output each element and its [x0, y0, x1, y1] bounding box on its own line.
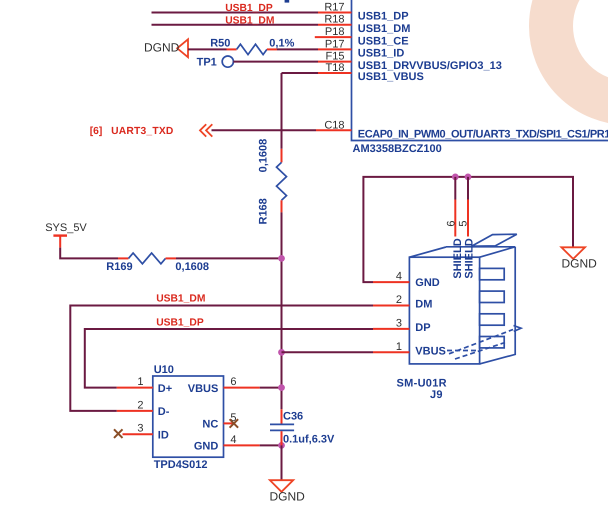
wire SYS_5V down and right: [60, 248, 118, 259]
svg-text:SHIELD: SHIELD: [464, 238, 476, 278]
pin number 2 J9: [396, 294, 402, 306]
watermark logo arc: [551, 0, 608, 103]
wire main vertical VBUS net middle: [281, 212, 283, 409]
svg-text:VBUS: VBUS: [415, 345, 446, 357]
svg-text:SM-U01R: SM-U01R: [397, 377, 447, 389]
svg-text:DGND: DGND: [562, 257, 598, 271]
svg-text:0.1uf,6.3V: 0.1uf,6.3V: [283, 433, 335, 445]
net label USB1_DP middle: [156, 317, 204, 328]
svg-text:U10: U10: [154, 364, 174, 376]
IC U10 value TPD4S012: [154, 459, 208, 471]
off-page connector UART3_TXD: [200, 124, 212, 136]
pin name D+: [158, 383, 172, 395]
svg-text:DGND: DGND: [144, 40, 180, 54]
resistor R50 value 0,1%: [269, 37, 294, 49]
wire C36 to DGND: [281, 445, 283, 480]
resistor R169: [118, 253, 176, 264]
svg-text:TPD4S012: TPD4S012: [154, 459, 208, 471]
wire USB1_DM middle: [70, 306, 373, 411]
IC U10 body: [153, 376, 224, 457]
pin label T18: [326, 62, 345, 74]
pin 1 VBUS J9 stub: [373, 351, 409, 353]
wire DGND to R50: [188, 48, 227, 50]
svg-text:D+: D+: [158, 383, 172, 395]
svg-text:2: 2: [396, 294, 402, 306]
svg-text:C18: C18: [324, 119, 344, 131]
wire net USB1_DM top: [152, 24, 319, 26]
connector J9 contact pad 2: [480, 291, 505, 302]
pin 2 D- stub: [117, 410, 153, 412]
pin label R18: [324, 14, 344, 26]
test point TP1 label: [197, 56, 217, 68]
svg-text:SHIELD: SHIELD: [452, 238, 464, 278]
svg-text:3: 3: [137, 423, 143, 435]
power label SYS_5V: [45, 222, 87, 234]
svg-text:0,1608: 0,1608: [175, 261, 209, 273]
connector J9 top face: [409, 247, 515, 257]
pin 5 SHIELD stub: [467, 177, 469, 237]
svg-text:GND: GND: [194, 441, 219, 453]
pin name GND: [194, 441, 219, 453]
svg-text:VBUS: VBUS: [188, 383, 219, 395]
pin 3 ID stub: [123, 433, 153, 435]
connector J9 insertion arrow: [514, 326, 522, 332]
ground label DGND bottom: [270, 490, 306, 504]
junction shield 5: [465, 174, 472, 181]
pin number 5 SHIELD (rotated): [458, 220, 470, 226]
ground DGND top-left: [177, 39, 188, 57]
pin label C18: [324, 119, 344, 131]
connector J9 contact pad 1: [480, 268, 505, 279]
IC U1 AM3358BZCZ100 body: [352, 0, 608, 141]
svg-text:J9: J9: [430, 389, 443, 401]
svg-text:C36: C36: [283, 410, 303, 422]
svg-text:P18: P18: [325, 26, 345, 38]
pin name ID: [158, 429, 169, 441]
svg-text:2: 2: [137, 399, 143, 411]
svg-text:R169: R169: [106, 261, 132, 273]
pin F15 USB1_DRVVBUS stub: [318, 61, 352, 63]
svg-text:R168: R168: [258, 198, 270, 224]
pin number 1: [137, 376, 143, 388]
svg-text:USB1_DRVVBUS/GPIO3_13: USB1_DRVVBUS/GPIO3_13: [358, 60, 502, 72]
pin number 6 SHIELD (rotated): [445, 220, 457, 226]
connector J9 reference SM-U01R: [397, 377, 447, 389]
connector J9 contact pad 4: [480, 337, 505, 348]
pin number 2: [137, 399, 143, 411]
wire J9 VBUS: [282, 351, 374, 353]
junction U10 VBUS: [278, 384, 285, 391]
wire USB1_DP middle: [85, 329, 373, 388]
svg-text:5: 5: [458, 220, 470, 226]
pin 3 DP J9 stub: [373, 328, 409, 330]
wire main vertical VBUS net upper: [281, 73, 283, 149]
connector J9 hidden dash line 1: [447, 350, 478, 352]
pin number 4 J9: [396, 271, 402, 283]
pin R17 USB1_DP stub: [318, 12, 352, 14]
connector J9 designator J9: [430, 389, 443, 401]
pin number 1 J9: [396, 341, 402, 353]
ground DGND bottom: [270, 480, 293, 492]
pin name NC: [202, 419, 218, 431]
svg-text:4: 4: [230, 434, 236, 446]
svg-text:R18: R18: [324, 14, 344, 26]
pin 1 D+ stub: [117, 387, 153, 389]
svg-text:1: 1: [396, 341, 402, 353]
pin name SHIELD 5 (rotated): [464, 238, 476, 278]
svg-text:DGND: DGND: [270, 490, 306, 504]
pin name USB1_ID: [358, 48, 405, 60]
wire U10 GND to vertical: [260, 444, 282, 446]
pin name USB1_CE: [358, 35, 409, 47]
ground DGND right: [561, 247, 585, 259]
pin 4 GND stub: [224, 444, 260, 446]
capacitor C36 reference label: [283, 410, 303, 422]
pin label F15: [326, 51, 345, 63]
connector J9 hidden dash line 3: [455, 343, 505, 360]
wire net USB1_DP top: [152, 12, 319, 14]
pin name VBUS: [188, 383, 219, 395]
resistor R168 reference label (rotated): [258, 198, 270, 224]
pin name SHIELD 6 (rotated): [452, 238, 464, 278]
connector J9 side face: [480, 247, 516, 364]
pin C18 ECAP0 stub: [316, 129, 352, 131]
svg-text:USB1_DM: USB1_DM: [156, 293, 205, 304]
svg-text:USB1_DP: USB1_DP: [156, 317, 204, 328]
pin name DP J9: [415, 322, 430, 334]
svg-text:F15: F15: [326, 51, 345, 63]
pin number 5: [230, 412, 236, 424]
net label [6] UART3_TXD: [90, 126, 174, 137]
svg-text:UART3_TXD: UART3_TXD: [111, 126, 173, 137]
wire T18 horizontal: [282, 72, 319, 74]
IC value label AM3358BZCZ100: [353, 143, 442, 155]
pin T18 USB1_VBUS stub: [318, 72, 352, 74]
ground label DGND right: [562, 257, 598, 271]
svg-text:ID: ID: [158, 429, 169, 441]
pin number 3 J9: [396, 317, 402, 329]
svg-text:AM3358BZCZ100: AM3358BZCZ100: [353, 143, 442, 155]
connector J9 tongue: [472, 234, 517, 246]
svg-text:USB1_CE: USB1_CE: [358, 35, 409, 47]
svg-text:[6]: [6]: [90, 126, 103, 137]
test point TP1: [222, 56, 233, 67]
svg-text:USB1_DM: USB1_DM: [225, 15, 274, 26]
svg-text:P17: P17: [325, 38, 345, 50]
no-connect X pin 5: [230, 419, 239, 428]
svg-text:GND: GND: [415, 277, 440, 289]
wire UART3_TXD to C18: [212, 129, 317, 131]
resistor R169 value 0,1608: [175, 261, 209, 273]
wire U10 VBUS to vertical: [260, 387, 282, 389]
IC U10 reference label: [154, 364, 174, 376]
pin name USB1_VBUS: [358, 71, 424, 83]
junction J9 VBUS: [278, 349, 285, 356]
svg-text:1: 1: [137, 376, 143, 388]
pin label P17: [325, 38, 345, 50]
svg-text:ECAP0_IN_PWM0_OUT/UART3_TXD/SP: ECAP0_IN_PWM0_OUT/UART3_TXD/SPI1_CS1/PR1…: [358, 129, 608, 141]
resistor R50: [227, 44, 278, 54]
svg-text:USB1_ID: USB1_ID: [358, 48, 405, 60]
svg-text:DM: DM: [415, 299, 432, 311]
capacitor C36 value 0.1uf,6.3V: [283, 433, 335, 445]
svg-text:R17: R17: [324, 2, 344, 14]
svg-text:3: 3: [396, 317, 402, 329]
svg-text:USB1_DP: USB1_DP: [358, 11, 409, 23]
pin P17 USB1_ID stub: [318, 48, 352, 50]
svg-text:USB1_VBUS: USB1_VBUS: [358, 71, 424, 83]
junction shield 6: [452, 174, 459, 181]
svg-text:USB1_DP: USB1_DP: [225, 3, 273, 14]
pin label R17: [324, 2, 344, 14]
svg-text:TP1: TP1: [197, 56, 217, 68]
svg-text:NC: NC: [202, 419, 218, 431]
svg-text:6: 6: [445, 220, 457, 226]
junction U10 GND / C36: [278, 442, 285, 449]
wire R50 to P17 pin: [277, 48, 318, 50]
pin P18 USB1_CE stub (unconnected): [315, 36, 352, 38]
pin label P18: [325, 26, 345, 38]
stray text fragment top edge: [285, 0, 290, 3]
svg-text:R50: R50: [210, 37, 230, 49]
svg-text:6: 6: [230, 376, 236, 388]
pin name VBUS J9: [415, 345, 446, 357]
power symbol SYS_5V: [53, 236, 67, 248]
pin 4 GND J9 stub: [373, 281, 409, 283]
pin name GND J9: [415, 277, 440, 289]
net label USB1_DM top: [225, 15, 274, 26]
pin name DM J9: [415, 299, 432, 311]
capacitor C36: [270, 409, 294, 445]
pin 6 SHIELD stub: [454, 177, 456, 237]
wire TP1 to F15: [233, 61, 318, 63]
ground label DGND top-left: [144, 40, 180, 54]
svg-text:T18: T18: [326, 62, 345, 74]
svg-text:SYS_5V: SYS_5V: [45, 222, 87, 234]
pin name USB1_DM: [358, 23, 411, 35]
pin name USB1_DP: [358, 11, 409, 23]
svg-text:0,1608: 0,1608: [258, 139, 270, 173]
net label USB1_DP top: [225, 3, 273, 14]
pin name USB1_DRVVBUS/GPIO3_13: [358, 60, 502, 72]
net label USB1_DM middle: [156, 293, 205, 304]
no-connect X pin 3: [114, 429, 123, 438]
svg-text:DP: DP: [415, 322, 430, 334]
pin number 6: [230, 376, 236, 388]
resistor R50 reference label: [210, 37, 230, 49]
svg-text:D-: D-: [158, 406, 170, 418]
pin R18 USB1_DM stub: [318, 24, 352, 26]
wire R169 to vertical: [176, 257, 282, 259]
pin 2 DM J9 stub: [373, 305, 409, 307]
resistor R168 value 0,1608 (rotated): [258, 139, 270, 173]
connector J9 contact pad 3: [480, 314, 505, 325]
connector J9 hidden dash line 2: [449, 330, 513, 354]
junction R169/vertical: [278, 255, 285, 262]
resistor R168 (vertical): [277, 149, 287, 213]
connector J9 front face: [409, 257, 479, 364]
resistor R169 reference label: [106, 261, 132, 273]
pin name D-: [158, 406, 170, 418]
pin 5 NC stub: [224, 422, 233, 424]
wire J9 GND up to shield bus: [363, 177, 573, 282]
svg-text:4: 4: [396, 271, 402, 283]
pin name ECAP0_IN_PWM0_OUT/UART3_TXD/SPI1_CS1/PR1: [358, 129, 608, 141]
svg-text:0,1%: 0,1%: [269, 37, 294, 49]
pin 6 VBUS stub: [224, 387, 260, 389]
pin number 4: [230, 434, 236, 446]
pin number 3: [137, 423, 143, 435]
svg-text:USB1_DM: USB1_DM: [358, 23, 411, 35]
